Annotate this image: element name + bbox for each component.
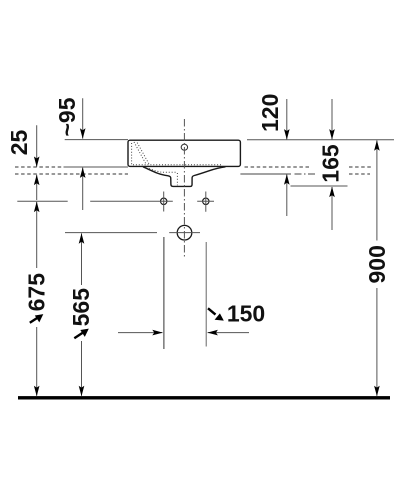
arrow 150 right — [152, 330, 163, 336]
dimension 25 line — [36, 125, 38, 200]
dimension 165 line — [331, 99, 333, 230]
svg-text:25: 25 — [6, 130, 32, 156]
dashed level line L2 right far — [349, 173, 370, 175]
hidden inner wall dotted diagonal A — [134, 142, 146, 164]
hidden bowl curve dotted — [149, 169, 177, 173]
extension line rim level left — [65, 139, 128, 141]
dashed level line L1 right — [245, 166, 311, 168]
drain hole — [177, 225, 192, 240]
arrow 120 down — [284, 129, 290, 140]
dimension ~95 line — [82, 98, 84, 210]
hidden drain pipe dotted vertical — [176, 173, 178, 185]
fixing hole right — [203, 198, 209, 204]
svg-text:900: 900 — [364, 245, 390, 283]
svg-text:150: 150 — [227, 301, 265, 327]
arrow 25 down — [34, 157, 40, 168]
basin body outline — [128, 140, 240, 166]
extension line fixing hole right vertical — [205, 242, 207, 347]
fixing hole left crosshair — [154, 192, 173, 212]
arrow 165 up — [329, 187, 335, 198]
arrow 675 up — [34, 202, 40, 213]
arrow 565 up — [79, 233, 85, 244]
tap hole — [181, 144, 187, 150]
hidden inner wall dotted vertical — [131, 143, 133, 165]
dimension 150 line left — [118, 332, 162, 334]
arrow 150 left — [207, 330, 218, 336]
svg-text:165: 165 — [318, 144, 344, 183]
extension line fixing hole left vertical — [163, 237, 165, 349]
drain hole crosshair horizontal — [169, 232, 200, 234]
leader arrow 675 — [30, 314, 44, 323]
arrowheads — [34, 128, 380, 396]
arrow 565 down — [79, 386, 85, 397]
extension line ~95 bottom (solid part of L1 left) — [64, 166, 129, 168]
dimension 675 line — [36, 202, 38, 396]
arrow 25 up — [34, 175, 40, 186]
arrow 900 up — [374, 140, 380, 151]
arrow ~95 down — [80, 128, 86, 139]
hidden inner bottom dotted horizontal — [133, 164, 221, 166]
svg-text:~95: ~95 — [54, 97, 80, 136]
svg-text:120: 120 — [257, 94, 283, 132]
arrow 120 up — [284, 174, 290, 185]
extension line drain level — [65, 232, 157, 234]
level line L2 right dash-dot — [295, 173, 317, 175]
floor line — [18, 396, 390, 399]
svg-text:565: 565 — [68, 288, 94, 327]
leader arrow 150 — [208, 308, 224, 320]
fixing hole right crosshair — [197, 192, 214, 212]
hidden inner wall dotted diagonal B — [137, 143, 149, 165]
extension line rim level right — [247, 139, 394, 141]
extension line fixing holes level — [17, 200, 153, 202]
arrow 675 down — [34, 386, 40, 397]
dimension 120 line — [286, 99, 288, 216]
arrow 165 down — [329, 129, 335, 140]
arrow ~95 up — [80, 167, 86, 178]
bowl underside curve with drain stub — [143, 167, 226, 187]
arrow 900 down — [374, 386, 380, 397]
leader arrow 565 — [74, 329, 89, 339]
extension line 165 bottom — [291, 185, 348, 187]
dashed level line L2 left — [15, 173, 128, 175]
dimension 900 line — [376, 140, 378, 395]
svg-text:675: 675 — [23, 273, 49, 312]
level line L2 right solid part — [240, 173, 291, 175]
dashed level line L1 left — [15, 166, 64, 168]
dimension 150 line right — [208, 332, 249, 334]
vertical centerline axis — [183, 119, 185, 258]
fixing hole left — [161, 198, 167, 204]
dashed level line L1 right far — [349, 166, 371, 168]
dimension 565 line — [81, 233, 83, 395]
